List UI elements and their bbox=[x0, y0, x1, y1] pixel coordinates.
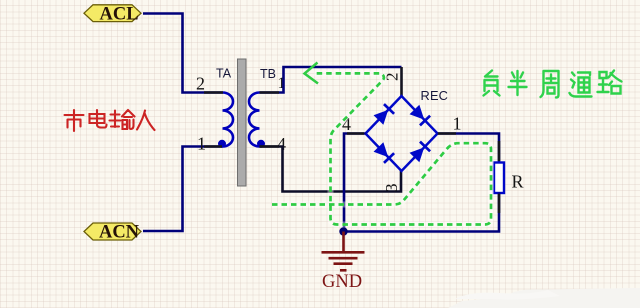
svg-text:R: R bbox=[512, 172, 524, 192]
wire bridge pin 4 to ground node bbox=[344, 134, 366, 232]
svg-text:TB: TB bbox=[260, 67, 276, 81]
pin TA-2 stub bbox=[204, 91, 223, 94]
transformer T primary winding TA bbox=[223, 93, 234, 147]
svg-text:1: 1 bbox=[197, 134, 206, 154]
junction dot at ground node bbox=[339, 227, 347, 235]
plain (gridless) patch in bottom-right corner bbox=[448, 288, 640, 308]
wire stub bridge pin 2 bbox=[400, 67, 403, 96]
diode D3 lower-left bbox=[373, 142, 394, 163]
svg-text:TA: TA bbox=[216, 67, 232, 81]
diode D2 upper-right bbox=[409, 105, 430, 126]
transformer core bbox=[238, 59, 247, 186]
pin TB-4 stub bbox=[260, 145, 280, 148]
svg-text:ACN: ACN bbox=[99, 223, 140, 243]
label 市电输入 (mains input, red) bbox=[65, 110, 155, 131]
svg-text:GND: GND bbox=[322, 272, 362, 292]
pin REC-4 stub bbox=[347, 132, 364, 135]
transformer secondary winding TB bbox=[249, 93, 259, 147]
wire bridge pin 1 to resistor bbox=[438, 134, 500, 163]
polarity dot TA bbox=[218, 140, 226, 148]
port flag ACN bbox=[84, 223, 141, 243]
svg-text:1: 1 bbox=[453, 114, 462, 134]
pin REC-1 stub bbox=[438, 132, 456, 135]
white halo under green dashed path bbox=[272, 73, 491, 224]
svg-text:3: 3 bbox=[382, 184, 401, 193]
pin TB-1 stub bbox=[260, 91, 280, 94]
resistor R bbox=[494, 163, 504, 194]
label 负半周通路 (negative half-cycle path, green) bbox=[484, 71, 622, 98]
pin R top stub bbox=[498, 141, 501, 161]
wire resistor bottom to ground node bbox=[344, 193, 500, 232]
wire ACL to TA pin 2 bbox=[143, 14, 223, 93]
diode D1 upper-left bbox=[373, 104, 394, 125]
svg-text:REC: REC bbox=[421, 88, 449, 103]
ground symbol bbox=[322, 232, 365, 271]
green dashed annotation path (negative half-cycle loop) bbox=[272, 73, 491, 224]
green arrow head (points left toward TB) bbox=[305, 63, 319, 84]
wire TB pin 4 to bridge pin 3 bbox=[260, 147, 402, 192]
diode D4 lower-right bbox=[409, 142, 430, 163]
wire TB pin 1 to bridge top bbox=[260, 67, 402, 93]
pin R bottom stub bbox=[498, 194, 501, 213]
wire TA pin 1 to ACN bbox=[143, 147, 223, 232]
pin TA-1 stub bbox=[204, 145, 222, 148]
port flag ACL bbox=[84, 4, 141, 24]
bridge rectifier REC outline bbox=[366, 96, 438, 171]
svg-text:ACL: ACL bbox=[99, 4, 138, 24]
svg-text:2: 2 bbox=[196, 74, 205, 94]
polarity dot TB bbox=[257, 140, 265, 148]
